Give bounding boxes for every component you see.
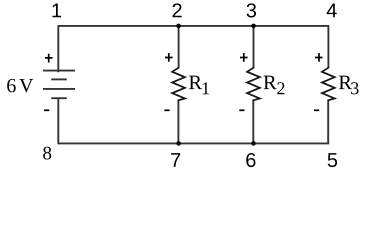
resistor R1 zigzag body	[172, 67, 185, 101]
junction dot node 6	[251, 141, 256, 146]
wire bottom horizontal (node 8 to node 5)	[58, 142, 330, 144]
node label 3	[247, 3, 256, 17]
node label 6	[246, 153, 255, 167]
wire lead R1 down to node 7	[177, 100, 179, 143]
R3 plus sign	[315, 53, 323, 62]
R2 plus sign	[240, 53, 248, 62]
battery B1 top long plate (+)	[43, 70, 75, 72]
battery label 6 V - digit 6	[7, 79, 16, 92]
battery label 6 V - letter V	[19, 79, 33, 92]
junction dot node 7	[176, 141, 181, 146]
junction dot node 3	[251, 24, 256, 29]
resistor R2 zigzag body	[247, 67, 260, 101]
node label 5	[328, 153, 337, 167]
resistor R1 label R	[189, 76, 202, 89]
resistor R2 label R	[264, 76, 277, 89]
junction dot node 2	[176, 24, 181, 29]
resistor R3 label R	[339, 76, 352, 89]
wire left vertical from node 1 down to battery	[57, 26, 59, 72]
wire lead node 3 down to R2	[253, 26, 255, 68]
R3 minus sign	[314, 109, 319, 111]
wire left vertical from battery down to node 8	[57, 98, 59, 143]
node label 4	[327, 4, 337, 18]
node label 8	[43, 147, 51, 160]
battery B1 bottom short plate (-)	[51, 97, 67, 99]
wire lead node 4 down to R3	[327, 26, 329, 68]
node label 2	[173, 3, 182, 17]
battery B1 upper short plate	[51, 78, 67, 80]
resistor R2 label subscript 2	[277, 82, 284, 94]
wire lead node 2 down to R1	[178, 26, 180, 68]
resistor R1 label subscript 1	[203, 82, 209, 94]
node label 1	[52, 4, 61, 18]
battery plus sign	[45, 54, 53, 63]
node label 7	[171, 153, 180, 167]
resistor R3 label subscript 3	[351, 82, 358, 94]
battery minus sign	[44, 109, 49, 111]
wire top horizontal (node 1 to node 4)	[58, 25, 330, 27]
resistor R3 zigzag body	[322, 67, 335, 101]
battery B1 lower long plate	[43, 88, 75, 90]
R1 minus sign	[164, 109, 169, 111]
wire lead R2 down to node 6	[252, 100, 254, 143]
R1 plus sign	[165, 53, 173, 62]
R2 minus sign	[239, 109, 244, 111]
wire lead R3 down to node 5	[327, 100, 329, 143]
